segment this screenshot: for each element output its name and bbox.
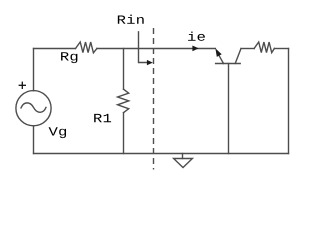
- label ie: [188, 32, 205, 41]
- transistor Q1 base bar: [216, 63, 241, 65]
- ground stub: [182, 154, 184, 159]
- Rin arrowhead: [147, 60, 153, 65]
- wire load resistor to right corner: [274, 48, 288, 50]
- wire bottom horizontal: [34, 153, 289, 155]
- label Rin: [118, 15, 144, 24]
- ie current arrowhead: [192, 46, 198, 52]
- wire R1 branch top: [123, 49, 125, 90]
- wire left vertical bottom: [33, 126, 35, 154]
- label Rg: [61, 52, 77, 63]
- wire R1 branch bottom: [123, 113, 125, 154]
- wire top-left horizontal: [34, 48, 76, 50]
- ground triangle: [174, 159, 193, 168]
- plus polarity mark: [19, 82, 26, 89]
- transistor emitter arrowhead: [215, 48, 221, 57]
- transistor Q1 collector lead: [235, 49, 241, 64]
- label Vg: [49, 127, 66, 138]
- label R1: [94, 114, 111, 122]
- wire collector to load resistor: [241, 48, 254, 50]
- resistor Rg: [76, 42, 98, 53]
- transistor Q1 base lead: [228, 64, 230, 154]
- transistor Q1 emitter lead: [219, 55, 224, 63]
- sine wave inside source: [21, 103, 46, 112]
- wire top-middle horizontal: [97, 48, 215, 50]
- dashed boundary line: [153, 28, 155, 170]
- Rin annotation arrow line: [139, 32, 148, 63]
- load resistor: [254, 42, 274, 53]
- wire left vertical top: [33, 49, 35, 91]
- wire right vertical: [288, 49, 290, 154]
- source Vg circle: [16, 91, 51, 126]
- resistor R1: [118, 89, 129, 112]
